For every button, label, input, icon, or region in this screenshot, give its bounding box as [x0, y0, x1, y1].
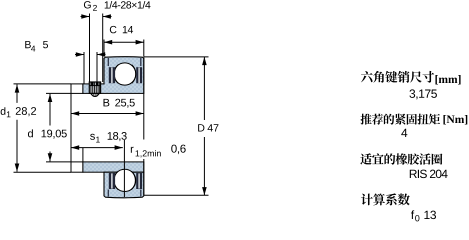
B dimension line with arrows [71, 111, 144, 116]
G2 dimension arrows [81, 14, 112, 19]
seal anchorage groove lines (top section) [108, 58, 141, 66]
bore corner line at sleeve step (bottom section) [82, 148, 84, 162]
B4 dimension arrows [75, 52, 106, 57]
info value 4 [401, 129, 407, 137]
C extension line right [143, 40, 145, 57]
info heading 1: hexagonal key size [mm] [361, 71, 434, 83]
ball (bottom section) [114, 169, 136, 191]
C dimension line with arrows [104, 40, 144, 45]
label d1 28,2 [1, 107, 36, 117]
label D 47 [198, 124, 218, 131]
label G2 1/4-28x1/4 [81, 0, 155, 13]
inner ring left face line [70, 84, 72, 172]
grub screw dome tip [91, 93, 100, 96]
outer ring body (bottom section) [104, 172, 144, 198]
seal (left, top section) [109, 67, 115, 83]
cage arcs around ball (bottom section) [114, 171, 135, 189]
d top extension line [46, 92, 71, 94]
seal (right, top section) [136, 67, 142, 83]
right face line [143, 57, 145, 195]
info heading 2: recommended tightening torque [Nm] [360, 114, 440, 125]
d dimension line with arrows [48, 94, 53, 162]
info value RIS 204 [410, 170, 448, 178]
inner ring shoulder fill above band (top section) [105, 80, 144, 85]
label d 19,05 [28, 129, 67, 138]
seal (right, bottom section) [136, 173, 142, 189]
B4 extension line left [83, 52, 85, 84]
grub screw G2 (top section) [89, 82, 100, 97]
OD top extension line [144, 56, 209, 58]
label B 25,5 [100, 97, 140, 110]
info heading 4: calculation factor [361, 193, 410, 205]
inner ring sleeve blue band (bottom section) [83, 162, 144, 172]
bearing mid-plane centerline (bottom section, s1 extension) [123, 140, 125, 197]
B4 extension line right [96, 52, 98, 82]
G2 extension line right [102, 14, 104, 83]
G2 extension line left [89, 14, 91, 83]
d bottom extension line [46, 161, 71, 163]
inner ring sleeve left white segment (bottom section) [71, 162, 83, 172]
cage arcs around ball (top section) [114, 65, 136, 83]
s1 dimension line with arrows [71, 145, 123, 150]
info value 3,175 [409, 89, 436, 99]
label C 14 [107, 23, 136, 37]
D dimension line with arrows [202, 57, 207, 195]
OD bottom extension line [144, 194, 209, 196]
seal (left, bottom section) [109, 173, 115, 189]
outer ring body (top section) [104, 57, 144, 84]
info value f0 13 [411, 210, 436, 221]
seal anchorage groove lines (bottom section) [108, 190, 141, 197]
inner ring sleeve left white segment (top section) [71, 84, 83, 94]
info heading 3: suitable rubber seating ring [360, 153, 442, 164]
ball (top section) [114, 63, 136, 85]
label 0,6 [171, 145, 185, 155]
label r 1,2min [127, 140, 166, 160]
d1 dimension line with arrows [15, 84, 20, 171]
d1 top extension line [14, 83, 72, 85]
d1 bottom extension line [14, 171, 72, 173]
C extension line left [103, 40, 105, 57]
label s1 18,3 [85, 131, 130, 143]
inner ring sleeve blue band (top section) [83, 84, 144, 94]
label B4 5 [22, 40, 52, 54]
